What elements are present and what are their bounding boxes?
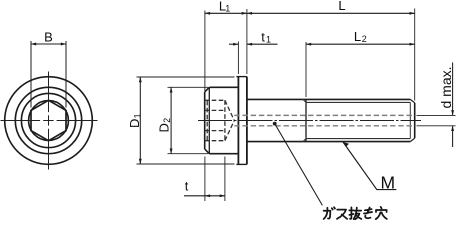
flange OD circle D1 bbox=[5, 77, 93, 165]
svg-text:D: D bbox=[127, 119, 142, 128]
head OD circle D2 bbox=[15, 87, 81, 153]
ext line thread start (L2 left) bbox=[305, 42, 307, 97]
dimension L2 (thread length) bbox=[306, 43, 415, 45]
thread runout top bbox=[303, 99, 306, 102]
socket chamfer circle bbox=[29, 101, 69, 141]
svg-text:2: 2 bbox=[162, 118, 172, 123]
flange left face bbox=[237, 77, 239, 165]
gas vent hole leader bbox=[273, 122, 277, 126]
d max ext top bbox=[417, 114, 456, 116]
thread minor bottom bbox=[306, 138, 410, 140]
svg-text:M: M bbox=[381, 173, 396, 193]
svg-text:t: t bbox=[261, 29, 265, 44]
dimension d max (vent dia) bbox=[452, 63, 454, 116]
D1 ext bottom bbox=[137, 163, 235, 165]
thread minor top bbox=[306, 101, 410, 103]
hex socket hexagon bbox=[31, 100, 66, 140]
head top line bbox=[209, 86, 238, 88]
glyph ガ bbox=[324, 207, 335, 219]
dimension B bbox=[31, 43, 66, 45]
dimension L1 bbox=[205, 12, 247, 14]
tip chamfer bottom bbox=[410, 138, 414, 141]
head bottom line bbox=[209, 153, 238, 155]
svg-text:L: L bbox=[354, 29, 361, 44]
tip end face bbox=[414, 103, 416, 138]
head face chamfer circle bbox=[21, 93, 75, 147]
ext line tip (L / L2 right) bbox=[414, 9, 416, 101]
tip chamfer top bbox=[410, 99, 414, 102]
thread start boundary bbox=[305, 99, 307, 141]
side view centerline bbox=[198, 120, 421, 122]
flange right face (bearing) bbox=[246, 77, 248, 165]
svg-text:B: B bbox=[44, 30, 53, 45]
D1 ext top bbox=[137, 76, 235, 78]
ext line head face (L1 left, t left) bbox=[204, 11, 206, 92]
dimension t1 (flange thickness) bbox=[229, 43, 238, 45]
socket silhouette bottom bbox=[205, 140, 225, 142]
svg-text:D: D bbox=[157, 123, 172, 132]
ext line flange right face (L1 right / L left / t1 right) bbox=[246, 9, 248, 74]
shank/thread major top bbox=[247, 98, 410, 100]
socket corner line upper bbox=[205, 109, 225, 111]
dimension t (socket depth) bbox=[184, 195, 225, 197]
head chamfer ring bbox=[208, 87, 210, 153]
dimension D2 (head dia) bbox=[170, 87, 172, 153]
socket bottom wall bbox=[224, 100, 226, 140]
thread callout M bbox=[343, 142, 396, 190]
svg-text:L: L bbox=[338, 0, 345, 13]
socket corner line lower bbox=[205, 130, 225, 132]
d max ext bottom bbox=[417, 125, 456, 127]
shank/thread major bottom bbox=[247, 141, 410, 143]
dimension L bbox=[247, 12, 415, 14]
svg-text:1: 1 bbox=[133, 113, 143, 118]
dimension D1 (flange dia) bbox=[139, 77, 141, 164]
front view horizontal centerline bbox=[1, 120, 98, 122]
tip root ring bbox=[409, 102, 411, 138]
front view vertical centerline bbox=[48, 72, 50, 170]
socket cone lower bbox=[225, 121, 234, 141]
vent hole top bbox=[234, 114, 414, 116]
glyph 穴 bbox=[376, 207, 387, 219]
svg-text:t: t bbox=[185, 179, 189, 194]
socket entry chamfer ring (hidden) bbox=[206, 101, 208, 140]
head chamfer bottom bbox=[205, 149, 210, 154]
head face bbox=[204, 92, 206, 149]
flange bottom edge bbox=[236, 163, 247, 165]
svg-text:1: 1 bbox=[225, 4, 230, 14]
svg-text:2: 2 bbox=[362, 34, 367, 44]
D2 ext top bbox=[168, 86, 209, 88]
svg-text:1: 1 bbox=[266, 34, 271, 44]
glyph き bbox=[364, 208, 372, 219]
dimension B extension lines bbox=[31, 41, 66, 108]
hidden socket outline (gray dashed) bbox=[205, 100, 235, 140]
ext line t right (socket depth) bbox=[224, 157, 226, 202]
socket silhouette top bbox=[205, 99, 225, 101]
thread runout bottom bbox=[303, 139, 306, 142]
glyph 抜 bbox=[349, 207, 361, 219]
vent hole bottom bbox=[234, 125, 414, 127]
glyph ス bbox=[337, 210, 347, 219]
ext line t1 left bbox=[237, 42, 239, 75]
gas vent hole label (ガス抜き穴) drawn as paths bbox=[324, 207, 387, 219]
D2 ext bottom bbox=[168, 153, 209, 155]
flange top edge bbox=[236, 76, 247, 78]
head chamfer top bbox=[205, 87, 210, 92]
svg-text:d max.: d max. bbox=[438, 66, 454, 108]
socket cone upper bbox=[225, 100, 234, 120]
gas vent hole hidden lines bbox=[234, 115, 414, 125]
